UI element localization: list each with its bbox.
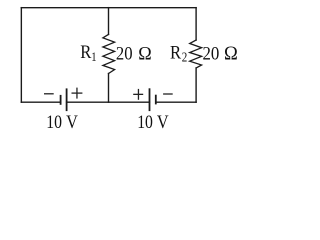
svg-text:2: 2 <box>182 50 188 65</box>
svg-text:Ω: Ω <box>138 43 151 65</box>
svg-text:V: V <box>157 111 169 132</box>
svg-text:20: 20 <box>203 43 220 64</box>
svg-text:Ω: Ω <box>224 43 238 65</box>
svg-text:R: R <box>170 42 181 63</box>
svg-text:10: 10 <box>46 112 62 132</box>
svg-text:20: 20 <box>116 43 133 64</box>
svg-text:10: 10 <box>137 112 153 132</box>
svg-text:V: V <box>66 111 78 132</box>
svg-text:1: 1 <box>91 50 96 64</box>
svg-text:R: R <box>80 41 91 62</box>
